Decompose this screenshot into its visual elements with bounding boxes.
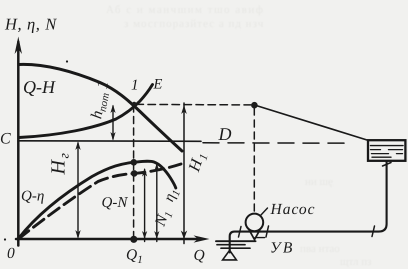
Q-H curve (19, 64, 182, 151)
operating point 1 (intersection dot) (132, 102, 136, 106)
svg-text:C: C (0, 131, 11, 148)
dashed vertical Q1 line (133, 105, 135, 237)
svg-text:ни шę: ни шę (305, 176, 333, 188)
tank water hatch line 2b (389, 149, 403, 151)
dot Q1 on abscissa axis (130, 236, 137, 243)
water surface line 2 (217, 244, 245, 246)
svg-text:Q: Q (194, 247, 205, 264)
C-level horizontal line (Hг level) (18, 140, 201, 143)
x-axis (16, 238, 202, 241)
tank water hatch line 4 (372, 156, 391, 158)
y-axis (17, 42, 20, 246)
svg-text:D: D (218, 124, 232, 144)
node dot above pump (head level H1) (251, 102, 258, 109)
flange tick below tank (383, 163, 392, 167)
tank water hatch line 3b (397, 153, 403, 155)
svg-text:0: 0 (7, 245, 15, 262)
svg-text:1: 1 (131, 78, 139, 94)
svg-text:H, η, N: H, η, N (4, 15, 57, 34)
sloped piezometric line from node dot to tank (255, 105, 368, 140)
suction strainer triangle (223, 250, 237, 260)
svg-text:УВ: УВ (270, 240, 295, 257)
dot on Q-eta curve at Q1 (131, 159, 138, 166)
faint bleed-through smudges (106, 4, 371, 268)
short water line right of level mark (255, 237, 265, 239)
H1 dimension line (183, 103, 185, 244)
svg-text:з мосгпоразйтес а пд нзч: з мосгпоразйтес а пд нзч (124, 18, 264, 30)
svg-text:пва нтао: пва нтао (300, 243, 340, 255)
dashed horizontal line at point-1 level (136, 103, 251, 106)
pipe from tank down and left to pump suction (230, 161, 387, 253)
flange tick left of pump (239, 227, 242, 238)
svg-text:Q-η: Q-η (21, 189, 44, 205)
svg-text:Q-N: Q-N (102, 195, 129, 211)
svg-text:Q-H: Q-H (23, 77, 56, 97)
paper speck above Q-H curve (66, 60, 68, 62)
Q-eta curve (19, 161, 176, 238)
dashed vertical from dot D down to pump (253, 108, 255, 212)
svg-text:Насос: Насос (270, 201, 316, 218)
tank water hatch line 1 (371, 145, 404, 147)
leader line from pump to Nasos label (261, 208, 268, 216)
Hg dimension line (77, 143, 79, 237)
water surface line 3 (221, 247, 250, 249)
upper tank (reservoir) (368, 140, 405, 161)
pump circle (246, 214, 264, 232)
flange tick near lower elbow (372, 226, 375, 237)
y-axis arrowhead (15, 37, 22, 55)
svg-text:щтл пз: щтл пз (340, 256, 371, 268)
x-axis arrowhead (194, 235, 210, 242)
h_pot dimension line (112, 106, 114, 139)
flange tick right of pump (266, 226, 269, 237)
tank water hatch line 3a (372, 153, 389, 155)
eta1 dimension line (156, 165, 158, 242)
water surface line 1 (216, 240, 256, 242)
svg-text:E: E (153, 77, 163, 93)
svg-text:Аб с и манчшим тшо авиф: Аб с и манчшим тшо авиф (106, 4, 264, 16)
paper speck left of origin (4, 238, 6, 240)
tank water hatch line 2a (371, 149, 381, 151)
dashed continuation of C-level line to tank (203, 142, 349, 144)
dot on Q-N curve at Q1 (131, 170, 138, 177)
system curve C-E (19, 85, 153, 138)
water level mark (nabla) under pump (249, 230, 259, 239)
Q-N curve (dashed) (19, 164, 182, 239)
N1 dimension line (144, 170, 146, 242)
